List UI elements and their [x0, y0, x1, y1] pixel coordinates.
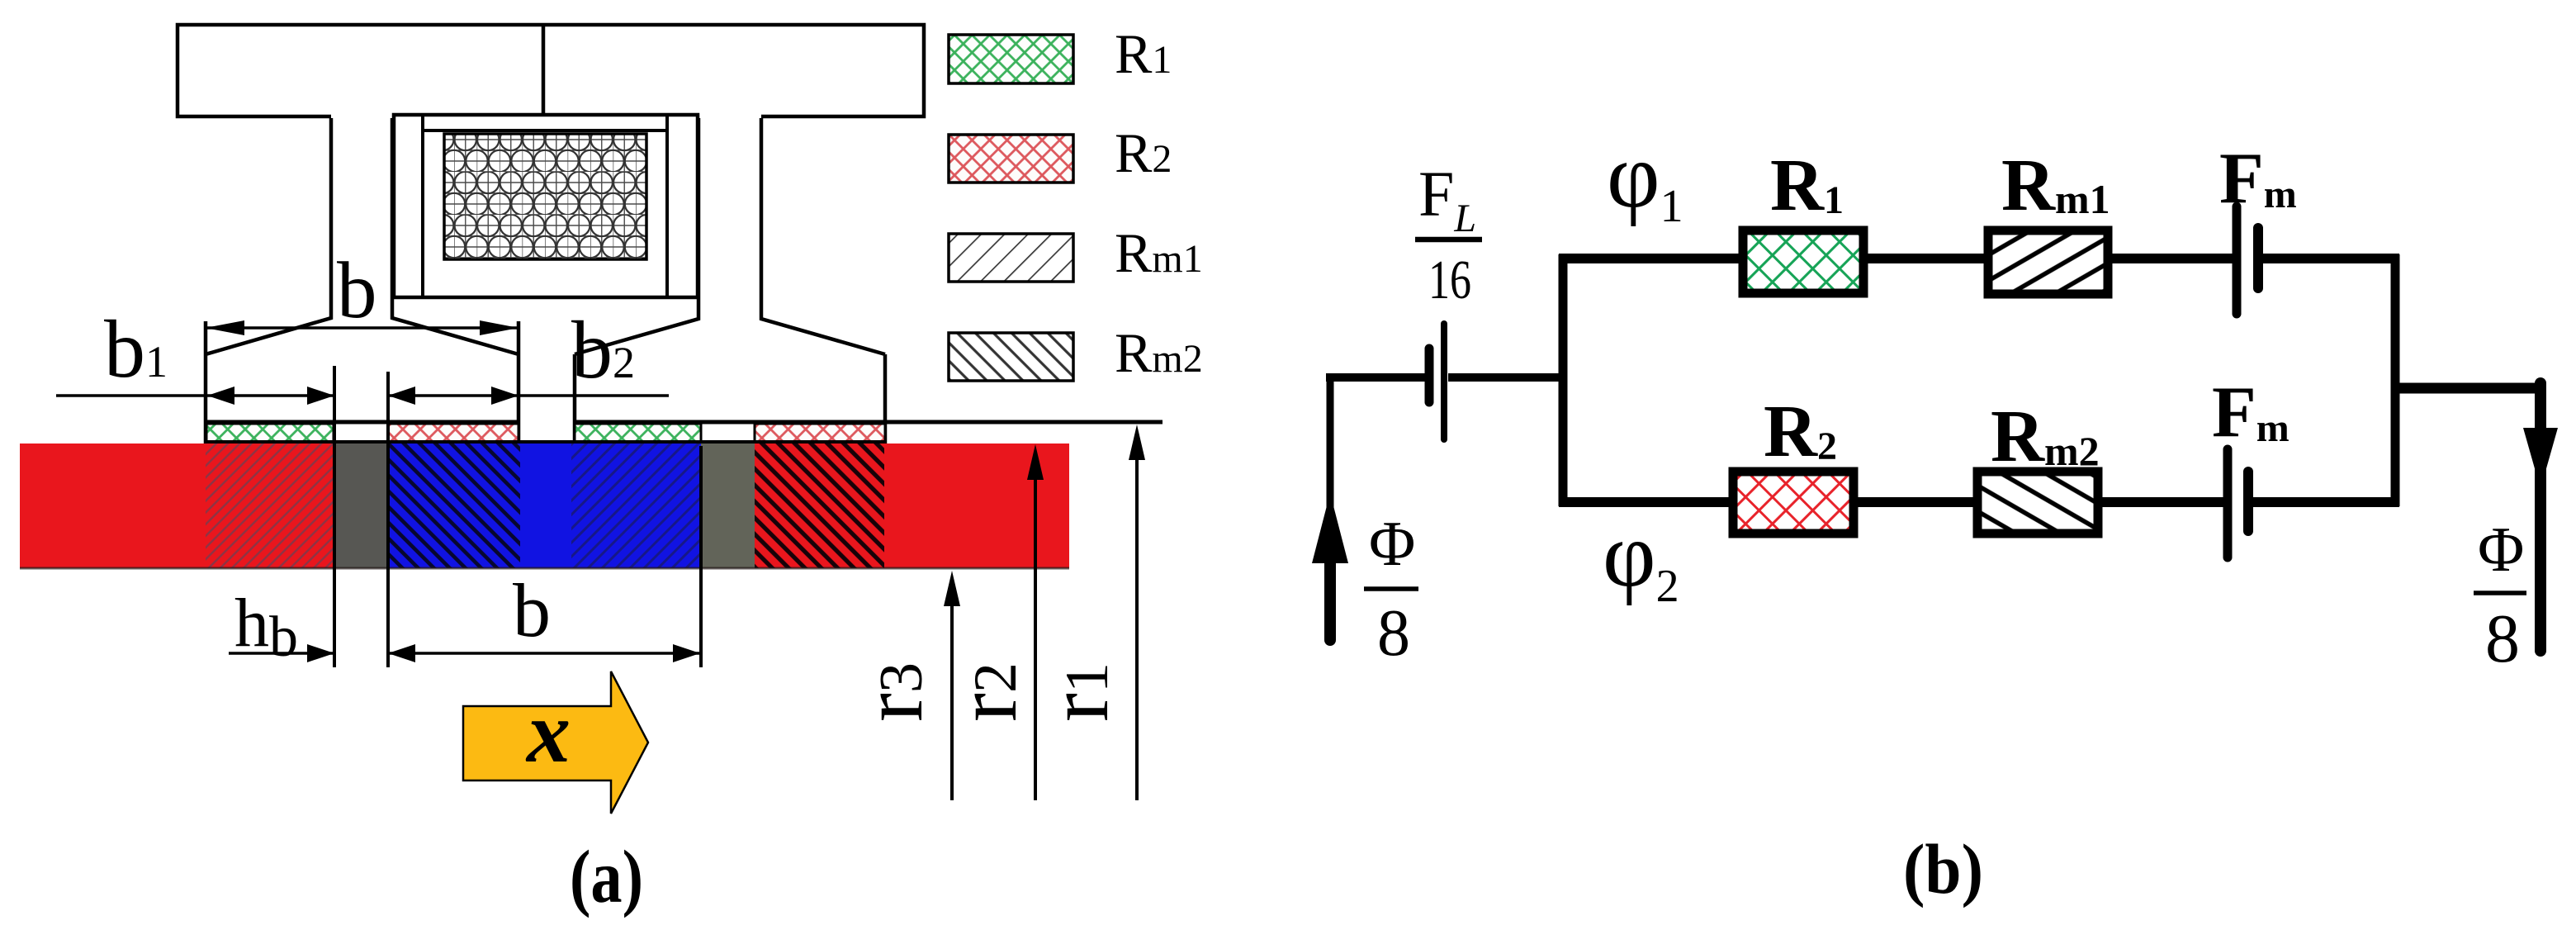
svg-text:r1: r1	[1030, 662, 1126, 722]
svg-text:Fm: Fm	[2219, 139, 2297, 219]
svg-text:Φ: Φ	[2478, 514, 2524, 585]
svg-text:Φ: Φ	[1369, 508, 1415, 579]
svg-text:x: x	[525, 684, 571, 780]
svg-text:b: b	[337, 246, 377, 334]
svg-text:R2: R2	[1115, 121, 1172, 184]
svg-text:8: 8	[2485, 600, 2520, 677]
svg-text:R1: R1	[1115, 22, 1172, 85]
svg-text:b: b	[513, 568, 551, 652]
svg-text:Rm2: Rm2	[1115, 321, 1203, 384]
svg-text:Fm: Fm	[2212, 372, 2290, 453]
svg-text:(a): (a)	[570, 835, 643, 918]
svg-text:(b): (b)	[1903, 829, 1983, 908]
svg-text:8: 8	[1377, 597, 1410, 670]
svg-text:Rm1: Rm1	[2001, 145, 2110, 226]
svg-text:FL: FL	[1418, 158, 1476, 240]
svg-text:φ2: φ2	[1603, 504, 1679, 612]
svg-text:Rm2: Rm2	[1991, 396, 2100, 477]
svg-text:b1: b1	[104, 303, 168, 395]
svg-text:φ1: φ1	[1607, 125, 1683, 232]
svg-text:Rm1: Rm1	[1115, 221, 1203, 284]
svg-text:b2: b2	[571, 304, 635, 396]
svg-text:R1: R1	[1770, 145, 1844, 226]
svg-text:R2: R2	[1764, 391, 1837, 472]
svg-text:hb: hb	[234, 585, 298, 669]
svg-text:16: 16	[1428, 249, 1471, 311]
svg-text:r3: r3	[844, 662, 940, 722]
